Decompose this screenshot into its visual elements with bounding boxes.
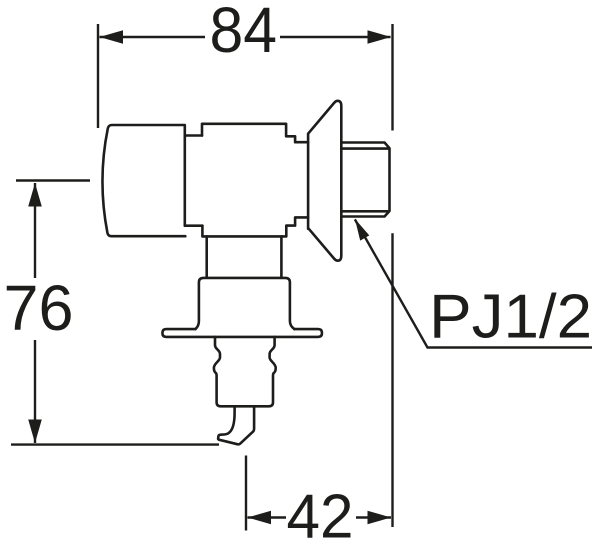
arrowhead 84 right [368, 30, 392, 44]
dim 76: top extension tick [16, 179, 90, 181]
bonnet mid-block [207, 236, 282, 277]
leader line PJ1/2 [355, 219, 592, 347]
neck [185, 136, 203, 226]
dim 76: bottom extension line [11, 443, 219, 445]
cone flange [308, 101, 341, 261]
svg-text:76: 76 [4, 272, 74, 344]
flange plate [162, 329, 322, 337]
arrowhead 76 bottom [28, 420, 42, 444]
body [202, 124, 308, 237]
dim 84: left extension line [97, 24, 99, 128]
dim 42: dimension line left tail [248, 516, 287, 518]
dim 42: dimension line right tail [356, 516, 391, 518]
arrowhead 84 left [100, 30, 124, 44]
arrowhead 42 right [368, 511, 392, 525]
svg-text:84: 84 [210, 0, 278, 66]
threaded nipple PJ1/2 [341, 143, 389, 217]
lower block [196, 278, 295, 329]
arrowhead 76 top [28, 183, 42, 207]
stem with groove [214, 337, 276, 406]
handle [102, 125, 185, 236]
svg-text:PJ1/2: PJ1/2 [429, 283, 592, 352]
dim 42: left extension line [245, 456, 247, 531]
outlet spout [218, 406, 254, 444]
dim 76: dimension line [34, 183, 36, 443]
arrowhead leader PJ1/2 [355, 219, 369, 241]
dim 84: right extension line (broken at nipple) [391, 24, 393, 527]
dim 84: dimension line [100, 36, 391, 38]
arrowhead 42 left [248, 511, 272, 525]
svg-text:42: 42 [287, 483, 354, 546]
